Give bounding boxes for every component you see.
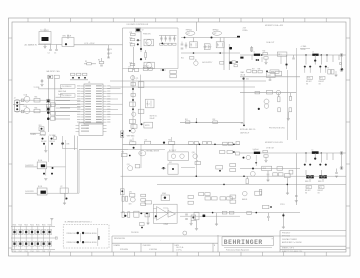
cap C84 <box>295 196 298 197</box>
svg-text:D41: D41 <box>246 79 249 81</box>
diode D32 <box>314 60 316 62</box>
resistor R14 <box>130 64 135 66</box>
svg-text:R14: R14 <box>130 62 133 64</box>
driver transformer T3 <box>190 42 198 48</box>
wire RL4 right <box>47 166 66 168</box>
box U95 <box>194 212 199 220</box>
resistor R44 <box>289 108 292 112</box>
svg-text:C105: C105 <box>36 251 40 253</box>
wire rail y87 <box>110 86 255 88</box>
resistor R91b <box>222 211 227 214</box>
junction y212 dots <box>212 212 214 214</box>
svg-text:NOTE: ALL RES 1%: NOTE: ALL RES 1% <box>240 128 256 131</box>
wire y212.6 bus <box>121 212 301 214</box>
junction after L1 <box>261 54 263 56</box>
svg-text:PROTECTION CH A: PROTECTION CH A <box>269 126 285 129</box>
svg-text:R37: R37 <box>252 68 255 70</box>
transistor Q42 <box>264 99 269 104</box>
diode D12 <box>137 43 139 45</box>
zobel C81 <box>264 155 268 157</box>
transistor Q85 <box>243 191 248 196</box>
resistor row above U1 <box>71 73 75 75</box>
wire rail y37.5 <box>181 37 240 39</box>
svg-text:R106: R106 <box>42 224 46 226</box>
junction dots lower <box>140 212 142 214</box>
resistor R74 <box>130 119 136 123</box>
svg-text:CH B OUT: CH B OUT <box>266 148 274 150</box>
relay box RL4 <box>37 162 46 169</box>
cluster caps left <box>122 196 124 201</box>
svg-text:RL3: RL3 <box>263 168 266 170</box>
power mosfet Q22 <box>212 31 221 35</box>
transistor Q41 <box>276 90 281 95</box>
resistor R92 <box>247 212 252 215</box>
svg-text:L4: L4 <box>312 149 314 151</box>
capacitor C83 <box>267 174 270 175</box>
svg-text:C91 100n: C91 100n <box>40 135 46 137</box>
wire to vr1 <box>30 132 40 134</box>
svg-text:C3: C3 <box>54 53 56 55</box>
parts x232 <box>230 164 236 167</box>
ground lower2 <box>195 229 198 231</box>
svg-text:R66: R66 <box>35 107 38 109</box>
svg-text:VR1: VR1 <box>39 125 42 127</box>
diode D14 <box>140 58 142 60</box>
diode D96 on y144 <box>163 142 165 144</box>
power mosfet Q82 <box>306 175 314 178</box>
opamp block box <box>153 204 177 223</box>
capacitor C22 C23 <box>181 44 184 45</box>
svg-text:EPX2000: EPX2000 <box>282 236 290 238</box>
boxes left of opamp <box>145 201 152 204</box>
svg-text:BR1: BR1 <box>63 36 67 38</box>
cap group C71 <box>128 68 132 71</box>
ground caps upper <box>44 151 47 153</box>
cap pair mid <box>43 173 45 175</box>
svg-text:D98: D98 <box>67 144 70 146</box>
edge connector CN3 <box>121 131 124 138</box>
connector ref CN1 <box>61 85 76 89</box>
resistor R12 <box>130 39 135 41</box>
diode D82 <box>252 168 254 170</box>
svg-text:BEHRINGER: BEHRINGER <box>224 239 263 246</box>
box U81 <box>285 174 291 178</box>
BEHRINGER logo <box>222 237 274 246</box>
opto U12 <box>144 62 154 68</box>
wire y150 mid <box>128 149 165 151</box>
transistor Q71 <box>131 76 135 80</box>
diode D24 <box>230 62 233 64</box>
diode D97 x133 <box>133 147 135 149</box>
SMPS top edge <box>123 27 179 29</box>
wire y149.5 left <box>79 149 128 151</box>
svg-text:AMPLIFIER 2 x 2000W: AMPLIFIER 2 x 2000W <box>282 241 302 244</box>
svg-text:CHECKED: CHECKED <box>143 245 152 247</box>
box lower B <box>263 205 269 208</box>
ground output A <box>334 75 337 77</box>
diode D71 <box>132 88 134 90</box>
svg-text:R21: R21 <box>181 58 184 60</box>
diode D98 <box>61 142 63 144</box>
box U92 <box>168 164 178 174</box>
ground after filter <box>43 47 46 49</box>
parts below1 <box>140 223 145 226</box>
resistor R4 group <box>99 61 104 63</box>
svg-text:C104: C104 <box>30 251 34 253</box>
svg-text:C4: C4 <box>110 49 112 51</box>
wire y216 bus <box>180 215 240 217</box>
rail y122 wire <box>180 121 243 123</box>
ground chb2 <box>286 193 289 195</box>
vertical x62 feed <box>61 136 63 149</box>
svg-text:R94: R94 <box>168 140 171 142</box>
filter caps row A <box>305 55 307 65</box>
resistor R65 <box>34 98 40 102</box>
inductor L2 channel A <box>312 54 318 56</box>
transistor Q84 <box>250 171 255 176</box>
svg-text:BRIDGE MODE: BRIDGE MODE <box>85 233 96 235</box>
svg-text:R65: R65 <box>35 97 38 99</box>
cap C93 pair <box>43 143 45 145</box>
boxes right of opamp1 <box>188 201 193 204</box>
svg-text:R12: R12 <box>130 37 133 39</box>
relay box RL5 <box>37 188 47 195</box>
wire top feed <box>195 22 197 31</box>
transformer T2 primary <box>136 29 140 32</box>
capacitor C32 <box>292 58 295 59</box>
diode D72 <box>132 99 134 101</box>
resistor R72 <box>130 102 136 106</box>
cap C96 <box>267 217 270 218</box>
resistor R63 <box>21 99 24 102</box>
resistor R83 vertical <box>246 179 248 184</box>
svg-text:R11: R11 <box>130 32 133 34</box>
svg-text:R103: R103 <box>24 224 28 226</box>
box U82 <box>255 191 262 195</box>
svg-text:C102: C102 <box>19 251 23 253</box>
diode D95 <box>282 214 284 216</box>
svg-text:R4: R4 <box>98 60 100 62</box>
diode D94 <box>203 215 206 218</box>
power mosfet Q83 <box>319 175 327 178</box>
svg-text:R36 4R7: R36 4R7 <box>319 81 325 83</box>
svg-text:DRAWN: DRAWN <box>114 244 121 247</box>
wire vertical x296 chb <box>295 153 297 205</box>
resistor R69 <box>50 117 55 120</box>
NTC label B2 <box>319 186 325 189</box>
vertical x54.8 <box>54 79 56 120</box>
transistor Q96 <box>193 154 198 159</box>
diode chain below L3 <box>255 162 257 164</box>
output resistor bank grid R101-R107/C101-C107 <box>11 225 55 227</box>
inductor L3 channel B <box>254 152 260 154</box>
NTC label A1 <box>307 76 313 79</box>
wire vertical x244 <box>243 77 245 126</box>
relay RL2 <box>145 99 154 108</box>
vertical feed x74 down <box>74 135 76 150</box>
svg-text:L2: L2 <box>312 52 314 54</box>
svg-text:R32: R32 <box>263 51 266 53</box>
wire into L1 <box>240 54 254 56</box>
wire vertical x133 <box>133 47 135 70</box>
svg-text:OTP B: OTP B <box>280 204 284 206</box>
resistor R43 <box>278 108 281 112</box>
wire vertical x296 cha <box>295 55 297 70</box>
svg-text:SHEET 2 OF 3 A4000 1/16: SHEET 2 OF 3 A4000 1/16 <box>282 250 302 253</box>
svg-text:U92: U92 <box>169 162 172 164</box>
svg-text:MOSFETS CH A +85V: MOSFETS CH A +85V <box>265 24 284 27</box>
svg-text:R35 4R7: R35 4R7 <box>306 81 312 83</box>
resistor R84 vertical <box>259 189 261 194</box>
box right edge y152 <box>236 152 240 155</box>
junction dots y55 <box>305 54 307 56</box>
svg-text:+85V: +85V <box>243 28 247 30</box>
boxes pair x207 <box>205 197 211 200</box>
vertical x141 mid <box>140 144 142 168</box>
svg-text:RL1: RL1 <box>278 54 281 56</box>
transistor Q94 <box>183 231 187 235</box>
wire to RL4 <box>25 166 37 168</box>
box pair right <box>170 70 176 73</box>
relay RL3 <box>262 166 272 170</box>
svg-text:STEREO MODE: STEREO MODE <box>66 233 78 235</box>
mute cluster <box>144 122 153 128</box>
resistor R82 <box>277 167 283 171</box>
wire vertical x141 <box>140 31 142 46</box>
resistor R33 row <box>247 70 251 73</box>
box U95b <box>191 215 196 220</box>
svg-text:Q91: Q91 <box>127 164 130 166</box>
resistor R71 <box>131 82 135 86</box>
diode D11 <box>137 39 139 41</box>
ground cha driver <box>287 119 290 121</box>
resistor R67 <box>50 103 55 106</box>
vertical bus x296 top <box>295 70 297 140</box>
vertical x196 mid <box>195 144 197 176</box>
wire rail y92.7 <box>240 92 296 94</box>
svg-text:R104: R104 <box>30 224 34 226</box>
parts x196 <box>195 162 201 165</box>
svg-text:DIGITAL POWER: DIGITAL POWER <box>282 238 297 241</box>
vertical x173 mid <box>172 144 174 152</box>
transistor Q23 <box>194 61 198 65</box>
cap C94 <box>128 212 130 218</box>
cap C91 pair <box>42 138 44 140</box>
svg-text:1 OF 3+: 1 OF 3+ <box>176 250 182 252</box>
power mosfet Q21 <box>186 31 195 35</box>
svg-text:BRIDGE MODE: BRIDGE MODE <box>85 242 96 244</box>
output terminal J3A <box>340 152 343 155</box>
resistor R3 group <box>87 63 92 65</box>
wire sense stubs <box>300 48 310 50</box>
aux transformer T5 <box>204 44 210 50</box>
SMPS bottom edge <box>123 68 179 70</box>
SMPS right edge <box>177 28 179 69</box>
diode D23 <box>229 47 232 50</box>
vertical x48.3 <box>47 75 49 132</box>
resistor R42 vertical <box>278 97 280 102</box>
wire y144 bus <box>123 143 241 145</box>
svg-text:KBU8: KBU8 <box>67 36 71 38</box>
wire y167.7 stub <box>181 167 195 169</box>
wire rail y168.5 <box>240 168 300 170</box>
svg-text:PWM DRV: PWM DRV <box>143 34 152 36</box>
resistor R66 <box>34 109 40 113</box>
wire to RL5 <box>25 192 37 194</box>
output terminal J1B <box>340 69 343 72</box>
wire bridge to bus <box>74 44 107 46</box>
svg-text:IRFB: IRFB <box>318 181 321 183</box>
cap C62 polarized <box>47 100 50 103</box>
output terminal J3B <box>340 167 343 170</box>
resistor row R37 <box>252 70 256 73</box>
wire rail y76.8 <box>240 76 300 78</box>
svg-text:RL5 B: RL5 B <box>38 186 42 188</box>
junction dots rails <box>196 175 198 177</box>
ground input <box>40 85 43 87</box>
svg-text:T2: T2 <box>142 30 144 32</box>
diode D31 <box>285 63 287 65</box>
ground opamp right <box>190 224 193 226</box>
svg-text:C71: C71 <box>128 67 131 69</box>
junction diode D21 <box>184 37 186 39</box>
cluster boxes right1 <box>220 151 225 154</box>
ground lower3 <box>215 224 218 226</box>
svg-text:R105: R105 <box>36 224 40 226</box>
cluster box Q92 <box>130 194 135 197</box>
box U43 <box>267 90 273 94</box>
svg-text:IRFP450: IRFP450 <box>213 30 219 32</box>
bridge mode jumpers <box>63 225 109 248</box>
trim pot VR1 <box>39 127 44 131</box>
svg-text:PSU MON: PSU MON <box>131 232 139 234</box>
opamp IC1A <box>24 96 30 102</box>
capacitor C3 <box>55 50 58 51</box>
svg-text:L1: L1 <box>254 52 256 54</box>
diode D62 <box>47 117 50 120</box>
diode D74 <box>162 69 164 71</box>
wire filter to bridge <box>57 44 62 46</box>
wire terminal B <box>341 155 343 167</box>
main IC U1 DSP <box>84 84 103 124</box>
svg-text:R86 4R7: R86 4R7 <box>318 190 324 192</box>
svg-text:BAL INPUT CH A: BAL INPUT CH A <box>47 70 61 73</box>
junction dots y153 <box>305 152 307 154</box>
svg-text:R101: R101 <box>13 224 17 226</box>
wire mains to filter <box>38 44 57 46</box>
svg-text:COMP: COMP <box>163 224 168 226</box>
resistor R73 <box>131 93 135 96</box>
box right edge y141 <box>236 142 240 145</box>
box pair mid B <box>273 173 278 176</box>
ground chb1 <box>266 180 269 182</box>
driver transformer T4 <box>216 42 224 48</box>
svg-text:F1: F1 <box>328 68 330 70</box>
transistor Q91 <box>128 166 133 171</box>
resistor R62 <box>54 75 59 78</box>
resistor R41 <box>255 92 260 94</box>
cap pair C33 C34 <box>256 59 258 61</box>
diode D61 <box>47 111 50 114</box>
svg-text:MUTE: MUTE <box>145 125 150 127</box>
bridge rectifier BR1 <box>62 38 74 47</box>
filter caps row B <box>305 153 307 163</box>
zobel resistor R32 <box>263 52 267 54</box>
svg-text:CN2 RIBBON: CN2 RIBBON <box>62 95 73 97</box>
svg-text:L3 15uH: L3 15uH <box>253 149 259 151</box>
resistor R64 <box>21 110 24 113</box>
zobel R81 <box>263 150 267 152</box>
wire rail y53 <box>181 52 240 54</box>
svg-text:R96 10K: R96 10K <box>41 141 46 143</box>
diode D81 <box>314 158 316 160</box>
svg-text:R52: R52 <box>213 119 216 121</box>
diode D73 <box>132 108 134 110</box>
cap C93 <box>122 212 124 218</box>
ground lower1 <box>146 223 149 225</box>
svg-text:STEVEN: STEVEN <box>120 249 129 251</box>
snubber resistor row <box>160 43 163 45</box>
wires U1 to input <box>14 99 81 101</box>
cap C64 <box>40 132 45 135</box>
svg-text:R93: R93 <box>130 140 133 142</box>
svg-text:R102: R102 <box>19 224 23 226</box>
wire vertical x224 <box>223 38 225 71</box>
aux IC U2 <box>79 123 103 135</box>
transistor Q43 <box>264 104 269 109</box>
opamp IC2B <box>168 211 176 218</box>
svg-text:C72: C72 <box>143 65 146 67</box>
svg-text:MUTE CTL: MUTE CTL <box>150 116 158 118</box>
svg-text:SHEET 2 OF 3: SHEET 2 OF 3 <box>282 248 294 250</box>
box above feed <box>53 137 56 139</box>
box right B <box>289 170 293 174</box>
svg-text:IC1B: IC1B <box>24 106 28 108</box>
wire vertical x229 <box>228 44 230 70</box>
svg-text:Professional Studio Equipment: Professional Studio Equipment <box>226 248 250 251</box>
svg-text:R3: R3 <box>85 61 87 63</box>
diode D13 <box>140 48 142 50</box>
diode D42 <box>258 108 260 110</box>
wire y148.4 stub <box>62 147 77 149</box>
svg-text:AC MAINS IN: AC MAINS IN <box>25 43 38 46</box>
NTC label A2 <box>320 76 326 79</box>
svg-text:REVISIONS: REVISIONS <box>114 238 126 240</box>
wire input left <box>20 104 24 106</box>
title block outline <box>112 235 346 237</box>
opamp IC2A <box>157 207 169 221</box>
vertical bus x287 top <box>286 70 288 140</box>
wire y88.9 <box>38 88 62 90</box>
diode D41 <box>243 78 245 80</box>
mosfet gate wires <box>305 170 307 175</box>
vertical feed x77 lower <box>76 136 78 193</box>
fuse F1 <box>328 70 331 75</box>
components on y144 <box>130 142 136 145</box>
SMPS block left edge <box>122 28 124 213</box>
svg-text:CH B SPKR: CH B SPKR <box>25 191 34 193</box>
vertical x65 left panel <box>65 140 67 200</box>
svg-text:STEREO MODE: STEREO MODE <box>66 242 78 244</box>
edge connector stub <box>121 189 125 195</box>
cap group C72 <box>143 67 148 70</box>
relay contact K1 <box>240 57 243 59</box>
connector ref CN2 <box>61 94 76 98</box>
resistor R95a <box>122 154 128 157</box>
wire x141 down2 <box>140 75 142 124</box>
wire rail y81 <box>110 80 266 82</box>
junction y122 <box>196 122 198 124</box>
